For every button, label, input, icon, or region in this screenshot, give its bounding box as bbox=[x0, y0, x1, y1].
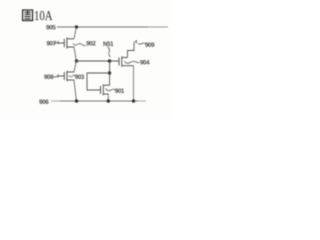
svg-text:908: 908 bbox=[44, 74, 54, 81]
svg-text:909: 909 bbox=[145, 42, 155, 49]
leader from N51 to wire bbox=[108, 47, 111, 57]
wire: 904 drain to 909 terminal bbox=[128, 43, 135, 58]
label 903 with squiggle leader bbox=[69, 75, 75, 77]
svg-text:904: 904 bbox=[140, 60, 150, 67]
wire: right node vertical bbox=[109, 61, 111, 85]
junction dot 901 source on rail bbox=[107, 99, 110, 102]
svg-text:902: 902 bbox=[86, 41, 96, 48]
wire: middle horizontal bbox=[77, 60, 120, 62]
wire: 903 source down to bottom rail bbox=[74, 80, 76, 101]
transistor 903 bbox=[58, 71, 74, 82]
wire: 904 source down to bottom rail bbox=[133, 66, 135, 101]
label 904 with squiggle leader bbox=[125, 61, 140, 63]
wire: 907 source down to mid node bbox=[74, 47, 76, 61]
wire: 901 source to bottom rail bbox=[107, 94, 109, 101]
wire: bottom rail 906 bbox=[51, 100, 60, 102]
transistor 904 bbox=[119, 56, 134, 67]
wire: feedback to 901 gate bbox=[87, 73, 110, 90]
wire: 907 drain to rail bbox=[74, 27, 76, 39]
wire: 903 drain up to mid node bbox=[74, 61, 76, 72]
svg-text:905: 905 bbox=[46, 25, 56, 32]
svg-text:903: 903 bbox=[75, 74, 85, 81]
label 902 with squiggle leader bbox=[73, 43, 86, 45]
title 圖10A bbox=[23, 10, 33, 21]
wire: top rail 905 bbox=[57, 26, 148, 28]
junction dot 904 source on rail bbox=[132, 99, 135, 102]
svg-text:N51: N51 bbox=[103, 41, 114, 48]
node 909 label with leader bbox=[134, 40, 146, 44]
svg-text:901: 901 bbox=[115, 88, 125, 95]
svg-text:906: 906 bbox=[39, 99, 49, 106]
junction dot right node bbox=[108, 71, 111, 74]
svg-text:10A: 10A bbox=[34, 8, 53, 23]
transistor 901 bbox=[101, 84, 110, 95]
junction dot mid-left bbox=[75, 59, 78, 62]
label 901 with squiggle leader bbox=[106, 89, 117, 91]
junction dot mid-right bbox=[108, 59, 111, 62]
junction dot on 905 rail bbox=[75, 25, 78, 28]
junction dot 903 source on rail bbox=[75, 99, 78, 102]
transistor 907 bbox=[58, 38, 74, 49]
